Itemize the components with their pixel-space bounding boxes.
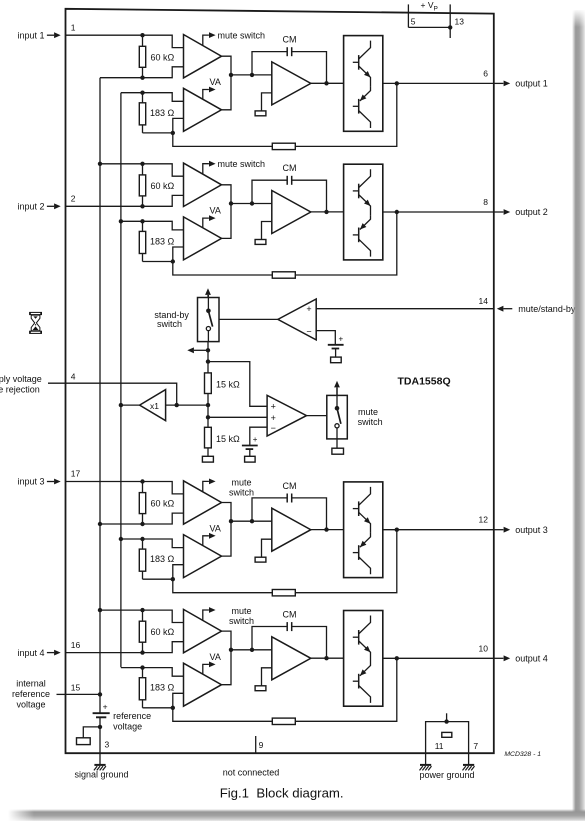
junction CM-output xyxy=(324,656,328,660)
node +Vp pin 5 xyxy=(408,4,415,27)
svg-text:2: 2 xyxy=(71,194,76,204)
hourglass xyxy=(29,312,42,334)
mute switch arrow xyxy=(203,479,216,492)
wire CM to output xyxy=(292,498,327,530)
svg-text:ripple rejection: ripple rejection xyxy=(0,385,40,395)
supply ripple rejection label (pin 4) xyxy=(0,371,76,394)
output stage block ch16 xyxy=(344,611,383,707)
junction outputs xyxy=(229,201,233,205)
terminator power amp minus xyxy=(255,240,266,245)
mute switch arrow xyxy=(203,32,216,45)
resistor 183 ch1 xyxy=(139,93,174,133)
svg-text:15 kΩ: 15 kΩ xyxy=(216,379,240,389)
wire to power amp xyxy=(231,203,272,205)
junction left-arrow xyxy=(206,348,210,352)
wire top input/ref line xyxy=(66,35,184,47)
svg-text:60 kΩ: 60 kΩ xyxy=(151,52,175,62)
mute switch arrow xyxy=(203,161,216,174)
resistor feedback ch16 xyxy=(272,718,295,724)
junction power gnd xyxy=(444,719,448,723)
svg-text:CM: CM xyxy=(283,481,297,491)
svg-text:+: + xyxy=(271,413,276,423)
VA arrow xyxy=(203,662,216,675)
svg-text:4: 4 xyxy=(71,371,76,381)
op-amp input amp ch16 xyxy=(184,609,222,652)
svg-text:mute: mute xyxy=(231,478,251,488)
svg-text:TDA1558Q: TDA1558Q xyxy=(398,375,451,387)
op-amp input amp ch1 xyxy=(184,35,222,78)
terminator power amp minus xyxy=(255,111,266,116)
resistor feedback ch2 xyxy=(272,272,295,278)
resistor feedback ch17 xyxy=(272,590,295,596)
svg-text:reference: reference xyxy=(12,689,50,699)
resistor 60k ch2 xyxy=(139,164,174,207)
wire bottom input/ref line xyxy=(66,195,184,206)
junction CM tap xyxy=(250,73,254,77)
junction pin15-rail xyxy=(98,692,102,696)
wire divider bottom xyxy=(207,448,209,456)
capacitor CM ch2 xyxy=(287,176,292,185)
op-amp power ch17 xyxy=(272,508,311,551)
resistor 60k ch1 xyxy=(139,35,174,77)
junction rail-B xyxy=(119,537,123,541)
label mute switch (control) xyxy=(358,407,383,427)
wire drive to mute amp xyxy=(208,362,267,407)
junction rail-A xyxy=(98,608,102,612)
op-amp VA ch16 xyxy=(184,663,222,706)
terminator power amp minus xyxy=(255,686,266,691)
junction bottom-60k xyxy=(140,522,144,526)
junction 183-top xyxy=(140,219,144,223)
wire CM to output xyxy=(292,627,327,659)
label mute switch xyxy=(229,606,254,626)
junction 183-bottom xyxy=(171,706,175,710)
svg-text:switch: switch xyxy=(358,417,383,427)
op-amp VA ch17 xyxy=(184,535,222,578)
wire stub to decoupling xyxy=(83,727,100,738)
svg-text:60 kΩ: 60 kΩ xyxy=(151,181,175,191)
wire rail VA (x=120.9) xyxy=(120,93,122,668)
wire output to pin 6 xyxy=(383,82,494,84)
wire feedback loop xyxy=(173,530,397,593)
labels mute amp inputs xyxy=(271,402,276,433)
output stage block ch17 xyxy=(344,482,383,578)
junction 183-bottom xyxy=(171,259,175,263)
svg-text:183 Ω: 183 Ω xyxy=(150,236,175,246)
wire output to pin 8 xyxy=(383,211,494,213)
junction feedback tap xyxy=(395,210,399,214)
transistor PNP lower ch17 xyxy=(353,533,371,574)
node +Vp pin 13 xyxy=(450,4,464,38)
wire stand-by to divider xyxy=(207,342,209,373)
junction rail-A xyxy=(98,162,102,166)
op-amp input amp ch2 xyxy=(184,163,222,206)
junction feedback tap xyxy=(395,528,399,532)
svg-text:voltage: voltage xyxy=(16,699,45,709)
stand-by switch contacts xyxy=(206,295,213,342)
svg-text:6: 6 xyxy=(483,68,488,78)
svg-text:input 2: input 2 xyxy=(17,202,44,212)
svg-text:+: + xyxy=(306,304,311,314)
resistor 183 ch17 xyxy=(139,539,174,579)
wire bottom input/ref line xyxy=(100,513,184,524)
wire 183-bottom to VA minus xyxy=(143,247,184,262)
svg-text:13: 13 xyxy=(455,17,465,27)
junction 183-bottom xyxy=(171,131,175,135)
terminator comparator battery xyxy=(331,357,342,363)
op-amp x1 buffer xyxy=(140,390,166,421)
wire power amp minus xyxy=(262,222,272,240)
junction outputs xyxy=(229,519,233,523)
junction half-supply node xyxy=(206,415,210,419)
svg-text:60 kΩ: 60 kΩ xyxy=(151,627,175,637)
resistor 60k ch16 xyxy=(139,610,174,653)
capacitor CM ch1 xyxy=(287,47,292,56)
junction 183-bottom xyxy=(171,577,175,581)
ground symbol pin 7 xyxy=(463,753,475,770)
junction pin4 join xyxy=(175,403,179,407)
junction 183-top xyxy=(140,537,144,541)
op-amp input amp ch17 xyxy=(184,481,222,524)
svg-text:−: − xyxy=(271,423,276,433)
wire mute switch ground xyxy=(336,439,338,448)
VA arrow xyxy=(203,87,216,100)
svg-text:5: 5 xyxy=(411,17,416,27)
mute switch arrow top xyxy=(334,381,340,396)
junction CM tap xyxy=(250,648,254,652)
power ground bracket xyxy=(426,722,469,754)
wire to power amp xyxy=(231,520,272,522)
mute switch arrow xyxy=(203,607,216,620)
svg-text:mute switch: mute switch xyxy=(218,30,266,40)
junction x1 node xyxy=(206,403,210,407)
wire 183-bottom to VA minus xyxy=(143,118,184,132)
stand-by switch box xyxy=(198,298,220,342)
wire 183-bottom to VA minus xyxy=(143,565,184,580)
capacitor CM ch16 xyxy=(287,622,292,631)
wire CM branch xyxy=(252,180,287,203)
svg-text:15: 15 xyxy=(71,682,81,692)
node not connected (pin 9) xyxy=(223,736,280,777)
wire power amp out xyxy=(311,82,344,84)
capacitor CM ch17 xyxy=(287,494,292,503)
transistor NPN upper ch2 xyxy=(353,169,371,215)
wire comparator minus xyxy=(316,331,335,345)
svg-text:VA: VA xyxy=(210,523,221,533)
wire opamp/VA outputs join xyxy=(222,503,232,557)
junction pin13 xyxy=(448,25,452,29)
wire output to pin 12 xyxy=(383,529,494,531)
junction CM-output xyxy=(324,210,328,214)
junction CM-output xyxy=(324,81,328,85)
op-amp VA ch1 xyxy=(184,88,222,131)
wire CM branch xyxy=(252,52,287,75)
transistor NPN upper ch16 xyxy=(353,616,371,662)
wire comparator out to switch xyxy=(219,318,278,320)
mute switch contacts xyxy=(335,387,341,439)
terminator power gnd xyxy=(442,732,452,737)
junction CM-output xyxy=(324,527,328,531)
battery comparator ref xyxy=(328,335,344,358)
output stage block ch2 xyxy=(344,164,383,260)
battery mute amp ref xyxy=(242,435,258,456)
svg-text:+: + xyxy=(103,702,108,712)
svg-text:60 kΩ: 60 kΩ xyxy=(151,499,175,509)
wire x1 input xyxy=(166,404,208,406)
terminator divider bottom xyxy=(202,456,213,462)
resistor 15k lower xyxy=(205,427,241,448)
svg-text:CM: CM xyxy=(283,609,297,619)
VA arrow xyxy=(203,215,216,228)
wire bottom input/ref line xyxy=(100,67,184,78)
wire power amp out xyxy=(311,529,344,531)
wire VA ref line xyxy=(121,668,184,677)
transistor NPN upper ch1 xyxy=(353,41,371,87)
wire mute amp minus xyxy=(250,427,267,445)
svg-text:mute: mute xyxy=(231,606,251,616)
resistor feedback ch1 xyxy=(272,143,295,149)
wire mute amp out xyxy=(307,415,327,417)
node input 2 (pin 2) xyxy=(17,194,75,212)
svg-text:output 2: output 2 xyxy=(515,207,548,217)
wire power amp minus xyxy=(262,539,272,557)
svg-text:output 3: output 3 xyxy=(515,525,548,535)
svg-text:VA: VA xyxy=(210,77,221,87)
svg-text:switch: switch xyxy=(157,319,182,329)
transistor PNP lower ch16 xyxy=(353,662,371,703)
svg-text:input 1: input 1 xyxy=(17,30,44,40)
wire VA ref line xyxy=(121,93,184,102)
resistor 60k ch17 xyxy=(139,482,174,525)
wire node to mute amp mid input xyxy=(208,416,267,418)
op-amp VA ch2 xyxy=(184,217,222,260)
signal ground symbol xyxy=(94,753,106,770)
svg-text:VA: VA xyxy=(210,652,221,662)
svg-text:8: 8 xyxy=(483,197,488,207)
stand-by chain top arrow xyxy=(205,288,211,297)
op-amp power ch16 xyxy=(272,637,311,680)
wire 183-bottom to VA minus xyxy=(143,693,184,708)
svg-text:reference: reference xyxy=(113,711,151,721)
transistor PNP lower ch1 xyxy=(353,87,371,128)
terminator mute switch xyxy=(332,448,344,454)
svg-text:Fig.1 Block diagram.: Fig.1 Block diagram. xyxy=(220,786,344,801)
label reference voltage xyxy=(113,711,151,732)
node mute/stand-by (pin 14) xyxy=(479,296,576,314)
wire CM to output xyxy=(292,180,327,212)
output stage block ch1 xyxy=(344,36,383,132)
wire power gnd stub xyxy=(446,713,448,721)
svg-text:+: + xyxy=(339,335,344,344)
wire feedback loop xyxy=(173,658,397,721)
junction CM tap xyxy=(250,201,254,205)
terminator mute battery xyxy=(245,456,256,462)
wire top input/ref line xyxy=(66,482,184,494)
wire +Vp bracket xyxy=(408,26,450,28)
label mute switch xyxy=(229,478,254,498)
node input 3 (pin 17) xyxy=(17,469,80,487)
svg-text:1: 1 xyxy=(71,22,76,32)
VA arrow xyxy=(203,533,216,546)
junction outputs xyxy=(229,648,233,652)
junction comparator drive xyxy=(206,359,210,363)
svg-text:14: 14 xyxy=(479,296,489,306)
resistor 183 ch16 xyxy=(139,668,174,708)
svg-text:mute: mute xyxy=(358,407,378,417)
svg-text:signal ground: signal ground xyxy=(75,770,129,780)
transistor PNP lower ch2 xyxy=(353,215,371,256)
wire CM to output xyxy=(292,52,327,84)
svg-text:output 1: output 1 xyxy=(515,79,548,89)
wire bottom input/ref line xyxy=(66,642,184,653)
wire top input/ref line xyxy=(100,164,184,176)
wire output to pin 10 xyxy=(383,657,494,659)
node output 3 (pin 12) xyxy=(479,515,548,535)
svg-text:mute/stand-by: mute/stand-by xyxy=(518,304,576,314)
resistor 183 ch2 xyxy=(139,221,174,261)
wire to power amp xyxy=(231,649,272,651)
wire power amp out xyxy=(311,211,344,213)
svg-text:supply voltage: supply voltage xyxy=(0,374,42,384)
wire opamp/VA outputs join xyxy=(222,185,232,239)
op-amp comparator xyxy=(278,299,316,340)
wire VA ref line xyxy=(121,539,184,548)
wire feedback loop xyxy=(173,212,397,275)
junction CM tap xyxy=(250,519,254,523)
wire VA ref line xyxy=(121,221,184,230)
svg-text:3: 3 xyxy=(105,739,110,749)
IC boundary box xyxy=(66,9,494,753)
svg-text:internal: internal xyxy=(16,679,46,689)
svg-text:switch: switch xyxy=(229,488,254,498)
junction rail-A xyxy=(98,522,102,526)
wire x1 output to rail xyxy=(121,404,140,406)
wire pin 15 xyxy=(66,693,101,695)
node input 1 (pin 1) xyxy=(17,22,75,40)
transistor NPN upper ch17 xyxy=(353,487,371,533)
junction rail-B xyxy=(119,219,123,223)
wire to power amp xyxy=(231,74,272,76)
mute-drive left arrow xyxy=(187,347,208,353)
op-amp mute control xyxy=(267,395,306,436)
junction bottom-60k xyxy=(140,76,144,80)
svg-text:11: 11 xyxy=(435,741,444,751)
svg-text:voltage: voltage xyxy=(113,722,142,732)
svg-text:17: 17 xyxy=(71,469,81,479)
battery reference voltage xyxy=(93,702,110,718)
wire rail reference (x=100) xyxy=(99,78,101,714)
mute switch box xyxy=(327,395,348,439)
svg-text:7: 7 xyxy=(473,741,478,751)
svg-text:input 4: input 4 xyxy=(17,648,44,658)
junction top-60k xyxy=(140,479,144,483)
svg-text:15 kΩ: 15 kΩ xyxy=(216,434,240,444)
node input 4 (pin 16) xyxy=(17,640,80,658)
svg-text:output 4: output 4 xyxy=(515,654,548,664)
svg-text:CM: CM xyxy=(283,163,297,173)
junction top-60k xyxy=(140,33,144,37)
junction top-60k xyxy=(140,608,144,612)
junction outputs xyxy=(229,73,233,77)
svg-text:input 3: input 3 xyxy=(17,477,44,487)
wire divider middle xyxy=(207,394,209,428)
label stand-by switch xyxy=(154,310,189,329)
wire comparator plus to pin 14 xyxy=(316,308,494,310)
resistor 15k upper xyxy=(205,373,241,394)
wire pin 4 to x1 input xyxy=(66,383,177,405)
svg-text:183 Ω: 183 Ω xyxy=(150,554,175,564)
svg-text:10: 10 xyxy=(479,643,489,653)
svg-text:MCD328 - 1: MCD328 - 1 xyxy=(504,751,541,758)
junction top-60k xyxy=(140,162,144,166)
wire power amp out xyxy=(311,657,344,659)
junction feedback tap xyxy=(395,81,399,85)
ground symbol pin 11 xyxy=(420,753,432,770)
svg-text:not connected: not connected xyxy=(223,767,280,777)
junction bottom-60k xyxy=(140,204,144,208)
svg-text:CM: CM xyxy=(283,35,297,45)
svg-text:mute switch: mute switch xyxy=(218,159,266,169)
junction 183-top xyxy=(140,91,144,95)
svg-text:x1: x1 xyxy=(150,401,159,411)
terminator power amp minus xyxy=(255,557,266,562)
svg-text:VA: VA xyxy=(210,206,221,216)
svg-text:+: + xyxy=(253,435,258,444)
svg-text:power ground: power ground xyxy=(419,770,474,780)
junction bottom-60k xyxy=(140,650,144,654)
svg-text:16: 16 xyxy=(71,640,81,650)
node output 2 (pin 8) xyxy=(483,197,547,217)
wire feedback loop xyxy=(173,83,397,146)
junction 183-top xyxy=(140,665,144,669)
node output 4 (pin 10) xyxy=(479,643,548,663)
svg-text:183 Ω: 183 Ω xyxy=(150,683,175,693)
svg-text:183 Ω: 183 Ω xyxy=(150,108,175,118)
wire rail reference lower xyxy=(99,717,101,753)
svg-text:−: − xyxy=(306,327,311,337)
wire top input/ref line xyxy=(100,610,184,622)
wire opamp/VA outputs join xyxy=(222,631,232,685)
svg-text:9: 9 xyxy=(259,740,264,750)
junction x1 out xyxy=(119,403,123,407)
svg-text:12: 12 xyxy=(479,515,489,525)
wire power amp minus xyxy=(262,93,272,111)
svg-text:+: + xyxy=(271,402,276,412)
wire power amp minus xyxy=(262,668,272,686)
junction feedback tap xyxy=(395,656,399,660)
node output 1 (pin 6) xyxy=(483,68,547,88)
junction stub xyxy=(98,725,102,729)
svg-text:switch: switch xyxy=(229,616,254,626)
node internal reference voltage (pin 15) xyxy=(12,679,81,710)
wire CM branch xyxy=(252,627,287,650)
wire opamp/VA outputs join xyxy=(222,56,232,110)
op-amp power ch2 xyxy=(272,191,311,234)
op-amp power ch1 xyxy=(272,62,311,105)
wire CM branch xyxy=(252,498,287,521)
terminator decoupling xyxy=(77,738,91,745)
